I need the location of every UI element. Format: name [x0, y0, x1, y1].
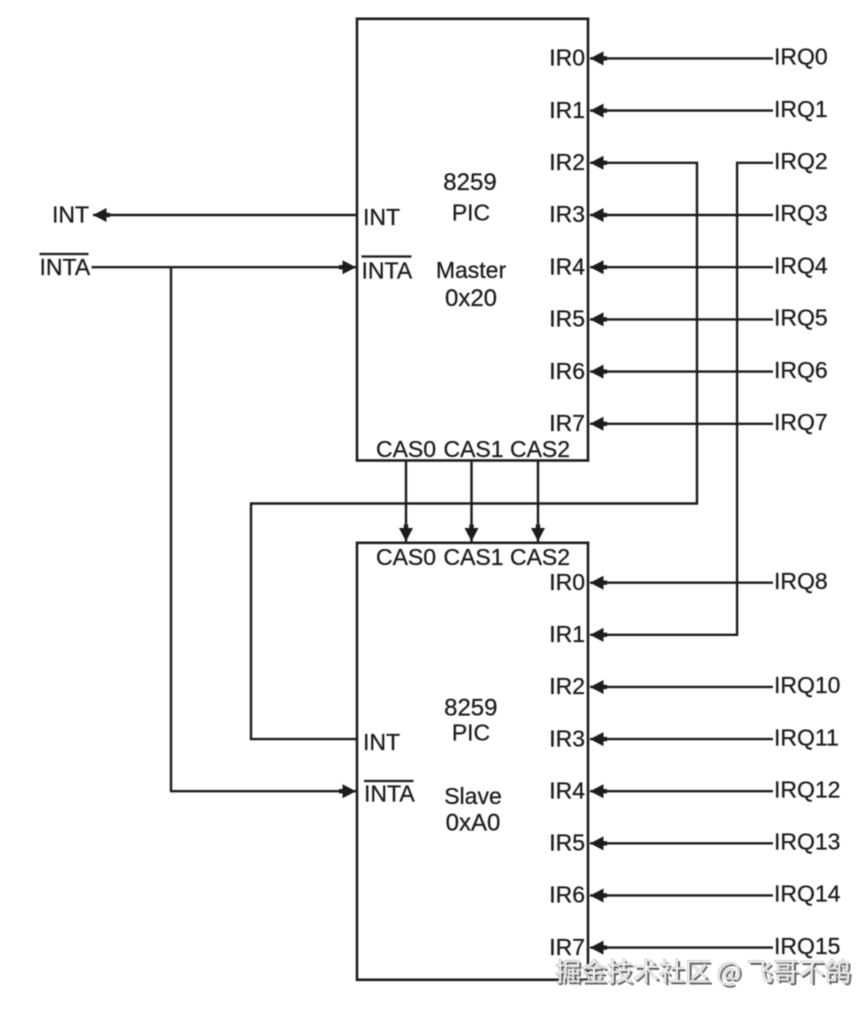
wire IRQ8 to U2 IR0	[590, 582, 773, 584]
wire slave INT riser (left)	[250, 502, 252, 739]
svg-text:INTA: INTA	[40, 254, 91, 280]
svg-text:IR7: IR7	[549, 410, 585, 436]
svg-text:IRQ10: IRQ10	[774, 672, 840, 698]
wire IRQ7 to U1 IR7	[590, 423, 773, 425]
svg-text:IR5: IR5	[549, 830, 585, 856]
svg-text:IRQ14: IRQ14	[774, 881, 841, 907]
wire IRQ4 to U1 IR4	[590, 266, 773, 268]
wire CAS0 cascade bus	[405, 461, 407, 542]
svg-text:IR2: IR2	[549, 673, 585, 699]
svg-text:IRQ3: IRQ3	[774, 200, 828, 226]
wire IRQ13 to U2 IR5	[590, 842, 773, 844]
svg-text:INT: INT	[363, 729, 400, 755]
svg-text:IR1: IR1	[549, 621, 585, 647]
wire IRQ15 to U2 IR7	[590, 946, 773, 948]
svg-text:CAS1: CAS1	[443, 544, 503, 570]
svg-text:CAS2: CAS2	[510, 436, 570, 462]
watermark 掘金技术社区 @ 飞哥不鸽 (shadow)	[558, 961, 852, 988]
svg-text:IRQ8: IRQ8	[774, 568, 828, 594]
wire INTA from CPU into U1	[92, 266, 357, 268]
wire slave INT horizontal crossover	[251, 502, 698, 504]
svg-text:CAS1: CAS1	[443, 436, 503, 462]
svg-text:0xA0: 0xA0	[446, 810, 501, 837]
wire slave INT riser (right)	[696, 162, 698, 504]
svg-text:IRQ6: IRQ6	[774, 357, 828, 383]
svg-text:CAS2: CAS2	[510, 544, 570, 570]
IC box U1: master 8259 PIC	[357, 19, 588, 461]
wire slave INT to master IR2: horizontal at master IR2	[590, 162, 697, 164]
svg-text:IR2: IR2	[549, 149, 585, 175]
svg-text:IRQ15: IRQ15	[774, 933, 840, 959]
svg-text:IR4: IR4	[549, 777, 585, 803]
svg-text:IR3: IR3	[549, 725, 585, 751]
wire IRQ5 to U1 IR5	[590, 318, 773, 320]
svg-text:IR1: IR1	[549, 97, 585, 123]
svg-text:INTA: INTA	[362, 258, 413, 284]
wire IRQ2 vertical run down to slave IR1	[736, 162, 738, 635]
wire IRQ6 to U1 IR6	[590, 370, 773, 372]
wire IRQ1 to U1 IR1	[590, 109, 773, 111]
svg-text:INT: INT	[363, 204, 400, 230]
svg-text:IR6: IR6	[549, 882, 585, 908]
svg-text:Slave: Slave	[444, 783, 502, 809]
svg-text:CAS0: CAS0	[376, 544, 436, 570]
svg-text:IR6: IR6	[549, 358, 585, 384]
svg-text:IR0: IR0	[549, 45, 585, 71]
svg-text:8259: 8259	[443, 169, 496, 196]
svg-text:IR5: IR5	[549, 306, 585, 332]
wire INTA branch down to U2	[170, 268, 172, 791]
wire IRQ10 to U2 IR2	[590, 686, 773, 688]
wire CAS1 cascade bus	[470, 461, 472, 542]
wire INTA into U2 INTA pin	[170, 790, 356, 792]
svg-text:IRQ1: IRQ1	[774, 96, 828, 122]
wire IRQ0 to U1 IR0	[590, 57, 773, 59]
svg-text:IR4: IR4	[549, 253, 585, 279]
wire IRQ2 horizontal stub	[736, 162, 773, 164]
svg-text:PIC: PIC	[452, 200, 490, 226]
svg-text:INTA: INTA	[364, 781, 415, 807]
wire IRQ3 to U1 IR3	[590, 214, 773, 216]
svg-text:IRQ12: IRQ12	[774, 776, 840, 802]
svg-text:IR0: IR0	[549, 569, 585, 595]
svg-text:IRQ11: IRQ11	[774, 724, 839, 750]
IC box U2: slave 8259 PIC	[357, 543, 588, 980]
svg-text:IR7: IR7	[549, 934, 585, 960]
wire IRQ14 to U2 IR6	[590, 894, 773, 896]
svg-text:CAS0: CAS0	[376, 436, 436, 462]
wire U1 INT output to CPU	[93, 214, 357, 216]
wire into U2 INT pin	[250, 738, 357, 740]
wire CAS2 cascade bus	[537, 461, 539, 542]
svg-text:8259: 8259	[444, 695, 497, 722]
svg-text:IR3: IR3	[549, 201, 585, 227]
svg-text:IRQ0: IRQ0	[774, 44, 828, 70]
svg-text:IRQ5: IRQ5	[774, 305, 828, 331]
svg-text:0x20: 0x20	[445, 285, 497, 312]
svg-text:Master: Master	[436, 257, 507, 283]
wire IRQ11 to U2 IR3	[590, 738, 773, 740]
wire IRQ12 to U2 IR4	[590, 790, 773, 792]
svg-text:IRQ13: IRQ13	[774, 829, 840, 855]
svg-text:IRQ4: IRQ4	[774, 252, 828, 278]
wire IRQ2 into U2 IR1 with arrow	[590, 634, 738, 636]
svg-text:IRQ7: IRQ7	[774, 409, 828, 435]
watermark 掘金技术社区 @ 飞哥不鸽 (face)	[556, 959, 850, 986]
svg-text:IRQ2: IRQ2	[774, 148, 828, 174]
svg-text:INT: INT	[52, 202, 89, 228]
svg-text:PIC: PIC	[452, 720, 490, 746]
